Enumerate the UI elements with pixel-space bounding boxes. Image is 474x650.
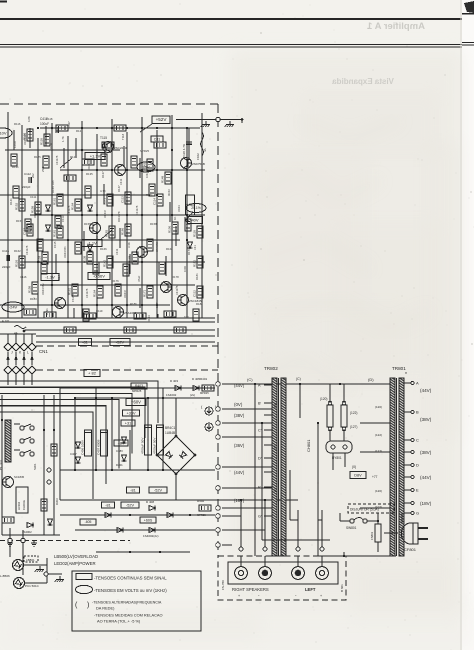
svg-text:26V: 26V (142, 164, 149, 169)
svg-text:(38V): (38V) (420, 417, 432, 422)
svg-text:R141: R141 (9, 198, 13, 205)
svg-text:CHOKE: CHOKE (22, 500, 26, 510)
svg-text:LB500(LV)OVERLOAD: LB500(LV)OVERLOAD (54, 554, 98, 559)
svg-text:R186: R186 (130, 302, 137, 306)
svg-text:DA REDE): DA REDE) (96, 606, 115, 611)
svg-text:R116: R116 (14, 122, 21, 126)
svg-text:-52V: -52V (116, 339, 125, 344)
svg-text:OR437: OR437 (103, 209, 107, 218)
svg-text:C111: C111 (30, 195, 37, 199)
svg-text:R166: R166 (100, 247, 107, 251)
svg-text:R176: R176 (112, 279, 119, 283)
svg-text:C116: C116 (2, 249, 9, 253)
svg-text:AO TERRA (TOL.+ -5 %): AO TERRA (TOL.+ -5 %) (97, 619, 141, 624)
svg-text:C': C' (258, 429, 262, 433)
svg-text:D': D' (258, 457, 262, 461)
svg-text:NPR25: NPR25 (140, 149, 149, 153)
svg-text:R118: R118 (46, 117, 53, 121)
svg-text:+60V: +60V (131, 400, 141, 405)
svg-text:0.47: 0.47 (155, 302, 159, 308)
svg-text:C: C (416, 438, 419, 443)
svg-text:-605: -605 (85, 520, 92, 524)
svg-text:C4137B: C4137B (175, 285, 179, 295)
svg-text:220pF: 220pF (22, 185, 31, 189)
svg-text:C119: C119 (96, 309, 103, 313)
svg-text:R171: R171 (187, 248, 191, 255)
svg-text:0R43: 0R43 (167, 189, 171, 196)
svg-text:R126: R126 (15, 259, 19, 267)
svg-text:10K: 10K (145, 173, 149, 178)
svg-text:R152: R152 (15, 202, 19, 210)
svg-text:-TENSOES CONTINUAS SEM SINAL: -TENSOES CONTINUAS SEM SINAL (94, 576, 167, 581)
svg-text:S301: S301 (33, 463, 37, 470)
svg-text:R181: R181 (53, 229, 57, 237)
svg-text:D401: D401 (116, 463, 123, 467)
svg-text:R148: R148 (128, 255, 132, 263)
svg-text:-1.1V: -1.1V (45, 274, 55, 279)
svg-text:C407 K00B: C407 K00B (97, 440, 101, 455)
svg-text:6.8K: 6.8K (27, 116, 31, 122)
svg-text:R178: R178 (172, 275, 179, 279)
svg-text:R164: R164 (71, 202, 75, 210)
svg-text:G: G (416, 511, 419, 516)
svg-text:D104: D104 (49, 143, 53, 150)
svg-text:+77: +77 (372, 475, 378, 479)
svg-text:C112: C112 (24, 172, 31, 176)
svg-text:R188: R188 (196, 302, 203, 306)
svg-text:1S1555: 1S1555 (71, 292, 75, 302)
svg-text:-52V: -52V (126, 503, 134, 507)
svg-text:C4137B: C4137B (85, 288, 89, 298)
svg-text:OR437B: OR437B (87, 160, 91, 170)
svg-text:+60S: +60S (144, 518, 153, 522)
svg-text:R164: R164 (93, 289, 97, 297)
svg-text:-TENSOES EM VOLTS ou mV (1KHz): -TENSOES EM VOLTS ou mV (1KHz) (94, 588, 167, 593)
svg-text:): ) (87, 602, 89, 609)
svg-text:R402: R402 (197, 499, 205, 503)
svg-text:(44V): (44V) (420, 475, 432, 480)
svg-text:(127): (127) (350, 425, 357, 429)
svg-text:R183: R183 (30, 297, 37, 301)
svg-text:(120): (120) (320, 397, 327, 401)
svg-text:MPR25: MPR25 (200, 391, 209, 395)
svg-text:R171: R171 (103, 197, 107, 205)
svg-text:-1.1V: -1.1V (87, 240, 97, 245)
svg-text:25.1%: 25.1% (191, 206, 201, 210)
svg-text:PL 301: PL 301 (0, 459, 3, 470)
svg-text:*: * (405, 372, 407, 378)
svg-text:LED02(AMP)POWER: LED02(AMP)POWER (54, 561, 96, 566)
svg-text:OR4378N: OR4378N (63, 246, 67, 258)
svg-text:OR4378N: OR4378N (41, 283, 45, 295)
svg-text:-81: -81 (105, 503, 111, 507)
svg-text:C18V: C18V (116, 449, 123, 453)
svg-text:-81: -81 (130, 488, 136, 492)
svg-text:1UB4B: 1UB4B (165, 431, 175, 435)
svg-text:(2x): (2x) (190, 393, 195, 397)
svg-text:R161: R161 (53, 197, 57, 205)
svg-text:C413: C413 (115, 248, 119, 255)
svg-text:R118: R118 (40, 138, 44, 145)
svg-text:2K2: 2K2 (31, 173, 35, 178)
svg-text:100uF: 100uF (40, 122, 49, 126)
svg-text:C113: C113 (61, 215, 65, 222)
svg-text:B': B' (258, 402, 262, 406)
svg-text:E': E' (258, 486, 262, 490)
svg-text:D8V: D8V (354, 473, 362, 477)
svg-text:220pF: 220pF (2, 265, 11, 269)
svg-text:C406 100V: C406 100V (81, 440, 85, 455)
svg-text:R186: R186 (121, 227, 125, 235)
svg-text:OR43: OR43 (177, 205, 181, 212)
svg-text:4K7: 4K7 (95, 235, 99, 240)
svg-text:L-B506: L-B506 (0, 574, 10, 578)
svg-text:(18V): (18V) (234, 498, 245, 503)
svg-text:B 601: B 601 (340, 584, 344, 592)
svg-text:1S4002(2x): 1S4002(2x) (143, 534, 159, 538)
svg-text:(36V): (36V) (234, 443, 245, 448)
svg-text:Vista Expandida: Vista Expandida (332, 77, 394, 86)
svg-text:(44V): (44V) (234, 383, 245, 388)
svg-text:FS-780: FS-780 (221, 580, 225, 590)
svg-text:47uF: 47uF (137, 275, 141, 282)
svg-text:DISJUNTOR (5,0A): DISJUNTOR (5,0A) (350, 508, 379, 512)
svg-text:T115: T115 (100, 136, 107, 140)
svg-text:C118 4.7K: C118 4.7K (182, 144, 186, 158)
svg-text:PC1 501C: PC1 501C (25, 584, 40, 588)
svg-text:R158: R158 (150, 222, 157, 226)
svg-text:100R: 100R (183, 266, 187, 272)
svg-text:OR4378N: OR4378N (23, 133, 27, 145)
svg-text:-81: -81 (82, 339, 89, 344)
svg-text:(122): (122) (375, 433, 382, 437)
svg-text:L: L (27, 351, 29, 355)
svg-text:R121: R121 (76, 129, 83, 133)
svg-text:F 101: F 101 (2, 319, 10, 323)
svg-text:C41: C41 (193, 245, 197, 250)
svg-text:LEFT: LEFT (305, 587, 316, 592)
svg-text:10V: 10V (0, 130, 7, 135)
svg-text:C4137B: C4137B (67, 205, 71, 215)
svg-text:(C): (C) (296, 377, 301, 381)
svg-text:LR302: LR302 (17, 501, 21, 510)
svg-text:-TENSOES ALTERNADAS(FREQUENCIA: -TENSOES ALTERNADAS(FREQUENCIA (92, 601, 162, 605)
svg-text:R162: R162 (14, 249, 21, 253)
svg-text:R171: R171 (143, 289, 147, 297)
svg-text:(122): (122) (350, 411, 357, 415)
svg-text:C417: C417 (67, 121, 71, 128)
svg-text:R191: R191 (45, 308, 49, 315)
svg-text:R138: R138 (83, 255, 87, 263)
svg-text:LB801: LB801 (26, 558, 35, 562)
svg-text:1S4002: 1S4002 (22, 530, 32, 534)
svg-text:C81: C81 (154, 137, 161, 141)
svg-text:A: A (416, 381, 419, 386)
svg-text:+52V: +52V (156, 117, 168, 122)
svg-text:1K: 1K (173, 216, 177, 220)
svg-text:1K5: 1K5 (51, 180, 55, 185)
svg-text:C4137B: C4137B (135, 205, 139, 215)
svg-text:R194: R194 (147, 315, 151, 322)
svg-text:D 408: D 408 (146, 500, 154, 504)
svg-text:OR437: OR437 (123, 289, 127, 298)
svg-text:C407: C407 (70, 452, 77, 456)
svg-text:MPR25: MPR25 (197, 513, 206, 517)
svg-text:(38V): (38V) (234, 413, 245, 418)
svg-text:TR802: TR802 (264, 366, 278, 371)
svg-text:RIGHT SPEAKERS: RIGHT SPEAKERS (232, 587, 269, 592)
svg-text:D 403: D 403 (170, 379, 178, 383)
svg-text:C114: C114 (153, 198, 157, 205)
svg-text:(0): (0) (352, 465, 356, 469)
svg-text:4700uF 50V: 4700uF 50V (153, 438, 157, 454)
svg-text:3.3K: 3.3K (127, 242, 131, 248)
svg-text:C4137B: C4137B (55, 155, 59, 165)
svg-text:2SD756B: 2SD756B (192, 162, 205, 166)
svg-text:D: D (416, 463, 419, 468)
svg-text:CN1: CN1 (39, 349, 48, 354)
svg-text:R125: R125 (34, 155, 41, 159)
svg-text:R401: R401 (200, 377, 208, 381)
svg-text:C413: C413 (119, 178, 123, 185)
svg-text:R168: R168 (166, 247, 173, 251)
svg-text:OR4378N: OR4378N (33, 206, 37, 218)
svg-text:R148: R148 (161, 175, 165, 183)
svg-text:R153: R153 (16, 219, 23, 223)
svg-text:R156: R156 (84, 222, 91, 226)
svg-text:4700uF 50V: 4700uF 50V (141, 438, 145, 454)
svg-text:(0V): (0V) (234, 402, 243, 407)
svg-text:C112: C112 (193, 290, 197, 297)
svg-text:C115: C115 (53, 241, 57, 248)
svg-text:R174: R174 (57, 273, 61, 280)
svg-text:Amplifier A 1: Amplifier A 1 (366, 21, 425, 32)
svg-text:4A: 4A (203, 148, 207, 152)
svg-text:-52V: -52V (154, 488, 162, 492)
svg-text:(D): (D) (368, 377, 374, 382)
svg-text:(44V): (44V) (420, 388, 432, 393)
svg-text:1.7K: 1.7K (61, 136, 65, 142)
svg-text:+1.1V: +1.1V (90, 153, 101, 158)
svg-text:(120): (120) (375, 489, 382, 493)
svg-text:B: B (416, 410, 419, 415)
svg-text:+31: +31 (125, 421, 131, 425)
svg-text:R142: R142 (103, 259, 107, 267)
svg-text:(120): (120) (375, 405, 382, 409)
svg-text:OR437B: OR437B (155, 242, 159, 252)
svg-text:MPR25: MPR25 (132, 389, 142, 393)
svg-text:SW801: SW801 (346, 526, 357, 530)
svg-text:R118: R118 (193, 230, 197, 237)
svg-text:CF801: CF801 (404, 547, 417, 552)
svg-text:RY801: RY801 (332, 456, 342, 460)
svg-text:C116: C116 (20, 275, 27, 279)
svg-text:FS801: FS801 (370, 531, 374, 540)
svg-text:C4137B: C4137B (25, 245, 29, 255)
svg-text:F102: F102 (196, 153, 200, 160)
svg-text:+: + (238, 594, 240, 598)
svg-text:+ 82: + 82 (88, 370, 97, 375)
svg-text:R135: R135 (86, 172, 93, 176)
svg-text:-TENSOES MEDIDAS COM RELACAO: -TENSOES MEDIDAS COM RELACAO (94, 613, 163, 618)
svg-text:R152: R152 (193, 259, 197, 267)
svg-text:40V: 40V (191, 217, 198, 222)
svg-text:TR801: TR801 (392, 366, 406, 371)
svg-text:(C): (C) (247, 377, 253, 382)
svg-text:+: + (320, 594, 322, 598)
svg-text:4.7K: 4.7K (100, 189, 106, 193)
svg-text:+33V: +33V (127, 411, 136, 415)
svg-text:E: E (416, 488, 419, 493)
svg-text:J: J (11, 351, 13, 355)
svg-text:1S4002: 1S4002 (166, 393, 177, 397)
svg-text:R158: R158 (28, 285, 32, 293)
svg-text:SC1845: SC1845 (14, 475, 25, 479)
svg-text:R303: R303 (55, 498, 59, 505)
svg-text:R181: R181 (195, 273, 199, 280)
svg-text:(92): (92) (273, 403, 277, 408)
svg-text:CH801: CH801 (306, 439, 311, 452)
svg-text:(44V): (44V) (234, 470, 245, 475)
svg-text:BR4C1: BR4C1 (165, 426, 176, 430)
svg-text:R106: R106 (168, 225, 172, 233)
svg-text:R137: R137 (101, 171, 105, 178)
svg-text:R144: R144 (51, 186, 55, 193)
svg-text:(18V): (18V) (420, 501, 432, 506)
svg-text:OR4378: OR4378 (117, 211, 121, 222)
svg-text:2SC2240: 2SC2240 (114, 146, 127, 150)
svg-text:(38V): (38V) (420, 450, 432, 455)
svg-text:C112: C112 (121, 196, 125, 203)
svg-text:G': G' (258, 515, 262, 519)
svg-text:(37): (37) (273, 445, 277, 450)
svg-text:A': A' (258, 384, 262, 388)
svg-text:-24V: -24V (9, 304, 18, 309)
svg-text:100: 100 (184, 315, 189, 319)
svg-text:T118: T118 (121, 133, 125, 140)
svg-text:(2): (2) (273, 488, 277, 492)
